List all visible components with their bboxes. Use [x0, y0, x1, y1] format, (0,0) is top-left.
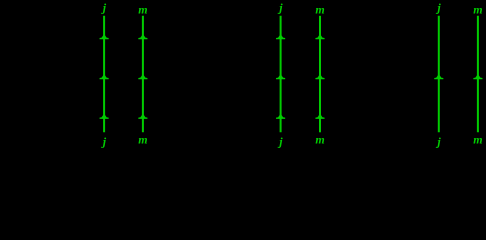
svg-text:m: m: [138, 132, 147, 146]
arrowhead on group1 strand j, middle: [100, 74, 109, 79]
wire: group 3 strand j: [434, 16, 443, 133]
arrowhead on group3 strand m, middle: [473, 74, 482, 79]
svg-text:m: m: [315, 2, 324, 16]
arrowhead on group1 strand m, bottom: [138, 114, 147, 119]
arrowhead on group2 strand m, middle: [315, 74, 324, 79]
wire: group 2 strand m: [315, 16, 324, 133]
svg-text:m: m: [138, 2, 147, 16]
arrowhead on group1 strand j, bottom: [100, 114, 109, 119]
arrowhead on group2 strand j, middle: [276, 74, 285, 79]
arrowhead on group1 strand m, middle: [138, 74, 147, 79]
wire: group 2 strand j: [276, 16, 285, 133]
arrowhead on group2 strand j, top: [276, 34, 285, 39]
arrowhead on group3 strand j, middle: [434, 74, 443, 79]
wire: group 1 strand j: [100, 16, 109, 133]
svg-text:m: m: [473, 132, 482, 146]
svg-text:m: m: [315, 132, 324, 146]
arrowhead on group2 strand m, top: [315, 34, 324, 39]
wire: group 1 strand m: [138, 16, 147, 133]
arrowhead on group1 strand m, top: [138, 34, 147, 39]
arrowhead on group2 strand m, bottom: [315, 114, 324, 119]
svg-text:m: m: [473, 2, 482, 16]
wire: group 3 strand m: [473, 16, 482, 133]
arrowhead on group2 strand j, bottom: [276, 114, 285, 119]
arrowhead on group1 strand j, top: [100, 34, 109, 39]
